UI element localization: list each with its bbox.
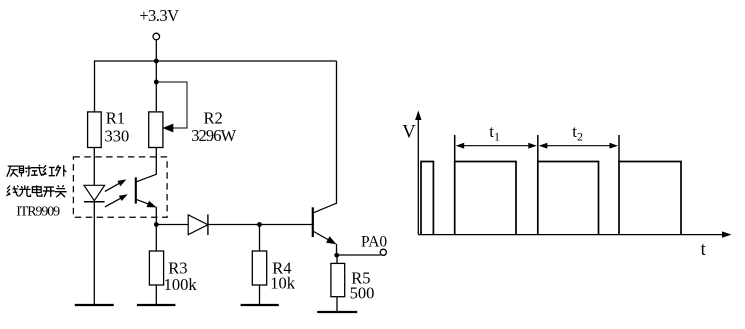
wire R2 wiper loop bbox=[156, 82, 187, 128]
resistor R4 body bbox=[252, 251, 266, 285]
wire collector riser to bus bbox=[336, 61, 338, 204]
svg-text:+3.3V: +3.3V bbox=[139, 6, 179, 25]
light emission arrow lower bbox=[105, 197, 123, 207]
waveform V axis bbox=[417, 115, 419, 235]
transistor Q2 base bar bbox=[312, 207, 314, 237]
terminal PA0 circle bbox=[380, 249, 386, 255]
node junction dot emitter/R3/diode bbox=[154, 222, 159, 227]
light emission arrow upper bbox=[105, 182, 122, 191]
wire output node to PA0 terminal bbox=[337, 254, 381, 256]
LED D1 triangle bbox=[84, 185, 105, 200]
svg-text:3296W: 3296W bbox=[191, 126, 236, 145]
wire R2 bottom to phototransistor collector bbox=[155, 148, 157, 175]
transistor Q2 collector lead bbox=[313, 203, 336, 213]
power terminal circle bbox=[153, 33, 160, 40]
label text 反射式红外 (drawn strokes) bbox=[7, 166, 19, 177]
diode D2 cathode bar bbox=[207, 214, 209, 235]
node junction dot at bus/R2 bbox=[154, 59, 159, 64]
wire emitter to output node bbox=[336, 244, 338, 255]
svg-text:100k: 100k bbox=[164, 275, 198, 294]
svg-text:V: V bbox=[402, 122, 416, 142]
ground symbol R5 bbox=[317, 311, 357, 313]
waveform V axis arrowhead bbox=[415, 111, 421, 121]
dimension line t2 with arrows bbox=[543, 145, 616, 147]
waveform t axis bbox=[418, 234, 727, 236]
svg-text:R1: R1 bbox=[106, 109, 125, 128]
svg-text:330: 330 bbox=[105, 126, 130, 145]
wire R5 bottom lead bbox=[336, 297, 338, 312]
transistor Q2 emitter arrowhead bbox=[326, 236, 337, 244]
phototransistor Q1 emitter lead bbox=[136, 199, 152, 205]
wire R1 bottom to LED anode bbox=[93, 148, 95, 186]
svg-text:t1: t1 bbox=[489, 122, 500, 143]
phototransistor Q1 emitter arrowhead bbox=[147, 201, 157, 208]
tick mark at t1 end / t2 start bbox=[537, 135, 539, 162]
resistor R3 body bbox=[149, 251, 163, 285]
tick mark at t2 end bbox=[618, 135, 620, 162]
label text 线光电开关 (drawn strokes) bbox=[7, 186, 19, 197]
transistor Q2 emitter lead bbox=[313, 231, 332, 242]
wire node to diode anode bbox=[156, 224, 188, 226]
ground symbol R4 bbox=[241, 304, 279, 306]
wire R4 bottom lead bbox=[259, 285, 261, 305]
waveform pulse train bbox=[421, 162, 681, 235]
resistor R5 body bbox=[331, 263, 345, 296]
wire LED cathode to ground bbox=[93, 202, 95, 305]
wire emitter to node bbox=[155, 207, 157, 225]
wire power terminal to bus bbox=[155, 40, 157, 61]
svg-text:10k: 10k bbox=[270, 274, 296, 293]
wire R2 top lead bbox=[155, 61, 157, 112]
svg-text:t2: t2 bbox=[572, 122, 583, 143]
wire diode cathode to transistor base bbox=[208, 224, 313, 226]
svg-text:t: t bbox=[701, 240, 707, 260]
svg-text:PA0: PA0 bbox=[361, 233, 387, 250]
tick mark at t1 start bbox=[454, 135, 456, 162]
phototransistor Q1 collector lead bbox=[136, 174, 156, 182]
ground symbol R3 bbox=[137, 304, 176, 306]
svg-text:500: 500 bbox=[350, 284, 375, 303]
node junction dot output bbox=[334, 253, 339, 258]
diode D2 triangle bbox=[188, 215, 208, 235]
dashed enclosure box ITR9909 bbox=[73, 157, 167, 217]
wire R1 top lead bbox=[94, 60, 96, 112]
wire top bus bbox=[95, 60, 337, 62]
LED D1 cathode bar bbox=[84, 201, 105, 203]
dimension line t1 with arrows bbox=[460, 145, 534, 147]
ground symbol LED branch bbox=[75, 304, 114, 306]
node junction dot R2 wiper tap bbox=[154, 80, 159, 85]
resistor R1 body bbox=[88, 112, 102, 148]
wire R5 top lead bbox=[336, 255, 338, 263]
phototransistor Q1 base bar bbox=[135, 177, 137, 203]
potentiometer R2 body bbox=[149, 112, 163, 148]
wire R3 top lead bbox=[155, 225, 157, 252]
waveform t axis arrowhead bbox=[722, 231, 732, 237]
wire R3 bottom lead bbox=[155, 285, 157, 305]
wire R4 top lead bbox=[259, 225, 261, 252]
R2 wiper arrowhead bbox=[162, 124, 173, 133]
svg-text:R2: R2 bbox=[204, 109, 223, 128]
node junction dot R4 tap bbox=[257, 222, 262, 227]
svg-text:ITR9909: ITR9909 bbox=[16, 204, 60, 219]
